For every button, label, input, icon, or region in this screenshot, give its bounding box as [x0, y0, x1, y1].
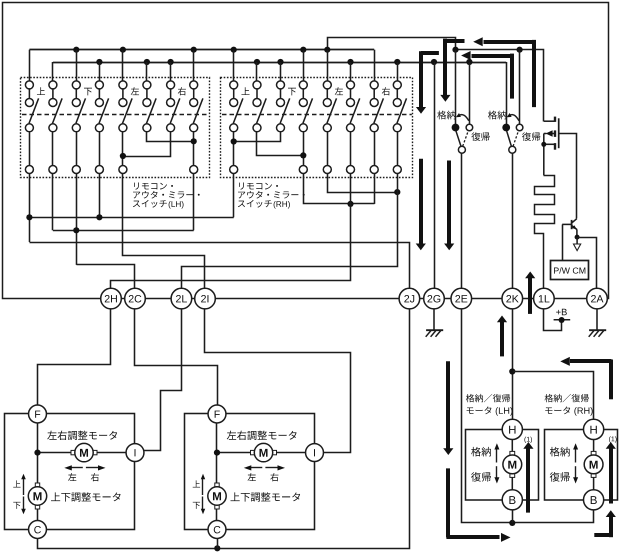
flow arrow: top-left L toward RH box	[421, 51, 439, 55]
wire 2L to I1	[144, 309, 182, 451]
label 復帰 retract-LH	[471, 132, 480, 141]
connector pin 2C	[125, 288, 146, 309]
node RH col8 junction below box	[394, 189, 400, 195]
wire RH col3 crossover to col1	[234, 132, 281, 142]
switch RH-3 contacts and blade	[277, 81, 290, 132]
label 下 RH	[193, 502, 200, 509]
node LH col8 junction	[191, 138, 197, 144]
connector pin 2K	[502, 288, 523, 309]
label switch RH name line1	[239, 183, 244, 190]
switch box LH (dotted)	[21, 78, 210, 178]
terminal I RH	[306, 444, 324, 462]
connector pin 2L	[171, 288, 192, 309]
flow arrow: up toward 2K	[500, 322, 504, 357]
node RH col4 junction	[300, 152, 306, 158]
wire busA end drop to RH col7	[374, 50, 376, 81]
wire risers from switch contacts to buses	[29, 50, 31, 81]
label 下 LH	[13, 502, 20, 509]
direction arrows 上/下 RH	[202, 477, 204, 495]
label 格納 retract-RH	[488, 111, 497, 120]
mirror motor assembly box LH	[5, 414, 135, 530]
module P/W CM	[551, 261, 589, 280]
wire Q2 emitter to 2A	[578, 238, 597, 289]
wire busA (top bus)	[29, 49, 374, 51]
node RH col1 junction	[231, 138, 237, 144]
switch LH-4 contacts and blade	[95, 81, 108, 132]
connector pin 2E	[451, 288, 472, 309]
bottom contacts RH box	[230, 166, 402, 174]
dashed actuation line RH	[222, 114, 412, 116]
wire LH col1 drop	[29, 174, 31, 243]
retract changeover switch LH	[452, 113, 473, 153]
flow arrow: L to return bus	[446, 468, 450, 537]
label 上下調整モータ RH	[231, 492, 240, 501]
resistor R1 (meander)	[535, 176, 555, 289]
switch LH-6 contacts and blade	[143, 81, 156, 132]
wire node to I LH	[38, 452, 127, 454]
label switch RH name line2	[238, 192, 245, 199]
label 格納 inside LH	[471, 447, 481, 457]
wire LH col4 drop	[99, 174, 101, 218]
flow arrow: up through connector row	[528, 278, 532, 314]
transistor Q1 power MOSFET	[544, 117, 559, 176]
flow arrow: right side left arrow	[570, 359, 611, 363]
wires RH box row3-row4 straight	[233, 132, 235, 166]
switch LH-3 contacts and blade	[72, 81, 85, 132]
terminal H LH	[502, 419, 522, 439]
wire RH col2 crossover to col4	[257, 132, 304, 156]
wire RH col7 drop	[374, 174, 376, 204]
connector pin 2G	[424, 288, 445, 309]
label 復帰 retract-RH	[522, 132, 531, 141]
connector pin 2H	[101, 288, 122, 309]
label (1) RH	[609, 436, 611, 442]
label 右 LH	[178, 87, 186, 95]
flow arrow: (1) up inside RH motor box	[609, 448, 613, 504]
switch RH-1 contacts and blade	[230, 81, 243, 132]
open arrow to other circuit (hollow triangle)	[576, 237, 578, 244]
terminal F LH	[29, 405, 47, 423]
label 左 LH	[131, 87, 139, 95]
label switch RH name line3	[238, 201, 245, 208]
motor M retract RH	[584, 451, 603, 477]
label 右 RH	[270, 473, 278, 481]
dashed actuation line LH	[22, 114, 209, 116]
direction arrows 左/右 LH	[69, 467, 83, 469]
transistor Q2 (PNP)	[562, 219, 577, 237]
wire M2 to C RH	[216, 509, 218, 521]
connector pin 2I	[195, 288, 216, 309]
label switch LH name line1	[134, 183, 139, 190]
wire link to MOSFET drain	[520, 50, 544, 122]
terminal F RH	[208, 405, 226, 423]
wire LH col3 drop	[76, 174, 78, 265]
wire drop to retract-LH kakunou contact	[455, 50, 457, 125]
wire 1L to +B feed	[544, 309, 562, 331]
label 右 RH	[382, 87, 390, 95]
terminal H RH	[584, 419, 604, 439]
wire retract-RH common to 2K	[512, 153, 514, 288]
label 上 RH	[193, 480, 200, 487]
node junctions on retract feed line	[452, 47, 458, 53]
wire 2H to F1	[38, 309, 111, 406]
label 左右調整モータ LH	[47, 431, 56, 440]
label 下 LH	[84, 88, 92, 96]
terminal C RH	[208, 521, 226, 539]
wire node to I RH	[217, 452, 306, 454]
wire busB drop to retract-LH fukki contact	[469, 62, 471, 125]
wire F to node LH	[37, 423, 39, 488]
label 復帰 inside RH	[550, 472, 560, 482]
wire retract feed to RH motor H	[513, 372, 594, 421]
terminal B LH	[502, 490, 522, 510]
switch LH-7 contacts and blade	[167, 81, 180, 132]
flow arrow: lower long left arrow	[472, 54, 513, 58]
power +B terminal	[554, 309, 571, 323]
wire C2 drop to return bus	[217, 538, 219, 548]
terminal B RH	[584, 490, 604, 510]
label 格納 retract-LH	[437, 111, 446, 120]
wire busB (second bus)	[53, 62, 506, 64]
wire F to node RH	[216, 423, 218, 488]
label 格納／復帰 RH	[545, 394, 554, 402]
wire RH col8 feed to 2L	[182, 174, 398, 289]
wire LH col7 crossover to col5	[123, 132, 171, 157]
direction arrows 格納/復帰 LH	[496, 447, 498, 463]
motor M vertical (up-down adjust) RH	[208, 483, 226, 509]
ground symbol at 2G	[426, 309, 444, 337]
wire H-M-B chain LH	[511, 438, 513, 453]
switch RH-8 contacts and blade	[393, 81, 406, 132]
node retract return at LH B	[509, 520, 515, 526]
label 左 RH	[248, 473, 256, 481]
flow arrow: second L	[445, 39, 464, 43]
terminal I LH	[126, 444, 144, 462]
switch box RH (dotted)	[221, 78, 413, 178]
retract motor box LH	[466, 430, 539, 501]
switch RH-7 contacts and blade	[370, 81, 383, 132]
wire RH col4 link to col6/col7	[304, 174, 375, 204]
wire retract-switch top link	[456, 49, 520, 51]
wire RH col6 feed to 2H	[111, 174, 351, 289]
label (1) LH	[524, 437, 526, 443]
wire LH col8 drop	[193, 174, 195, 231]
label 復帰 inside LH	[471, 472, 481, 482]
label 格納 inside RH	[550, 447, 560, 457]
flow arrow: (1) up inside LH motor box	[526, 448, 530, 513]
wire RH col1 drop	[233, 174, 235, 218]
switch RH-6 contacts and blade	[347, 81, 360, 132]
wire drop to retract-RH fukki contact	[519, 50, 521, 125]
node net-A at col1	[26, 214, 32, 220]
label 上 LH	[13, 480, 20, 487]
motor M horizontal (left-right adjust) RH	[251, 443, 277, 461]
wire H-M-B chain RH	[593, 438, 595, 453]
label 格納／復帰 LH	[466, 394, 475, 402]
switch RH-4 contacts and blade	[299, 81, 312, 132]
flow arrow segment below (left)	[419, 159, 423, 244]
wire MOSFET gate to transistor Q2	[560, 134, 577, 219]
ground symbol at 2A	[589, 309, 607, 337]
mirror motor assembly box RH	[185, 414, 315, 530]
wire LH col5 feed to 2I	[123, 174, 205, 289]
switch LH-5 contacts and blade	[119, 81, 132, 132]
node retract feed	[509, 368, 515, 374]
label 上下調整モータ LH	[51, 492, 60, 501]
label 上 RH	[241, 87, 249, 95]
node junctions on busB	[96, 59, 102, 65]
retract motor box RH	[545, 430, 618, 501]
flow arrow: down left of motors	[446, 361, 450, 448]
wire busB drop to 2G	[434, 62, 436, 288]
bottom contacts LH box	[25, 166, 197, 174]
wire 2K down to retract node	[512, 309, 514, 421]
node net-A at col4	[96, 214, 102, 220]
wire busC (upper jog of retract feed)	[328, 38, 456, 50]
switch LH-2 contacts and blade	[49, 81, 62, 132]
flow arrow segment below (right)	[447, 161, 451, 244]
retract changeover switch RH	[502, 113, 523, 153]
wires LH box row3-row4 straight	[29, 132, 31, 166]
wire Q2 base to P/W CM	[562, 224, 564, 260]
node junctions on busA	[73, 47, 79, 53]
flow arrow: upper long left arrow	[484, 40, 534, 44]
wire net-A feed to 2J	[30, 243, 410, 289]
node Q2 emitter junction	[575, 235, 580, 240]
direction arrows 左/右 RH	[248, 467, 262, 469]
direction arrows 上/下 LH	[23, 477, 25, 495]
label 下 RH	[288, 88, 296, 96]
wire net-B feed to 2C	[77, 265, 135, 289]
wire M2 to C LH	[37, 509, 39, 521]
node RH col6 junction	[347, 201, 353, 207]
node motor tie LH	[34, 450, 40, 456]
label 左 LH	[68, 473, 76, 481]
wire 2I to I2	[205, 309, 351, 453]
wire 2E down to retract return bus	[462, 309, 594, 523]
node MOSFET source/body tie	[541, 142, 546, 147]
terminal C LH	[29, 521, 47, 539]
wire LH B to return bus	[512, 510, 514, 523]
node bottom return at C2	[214, 545, 220, 551]
label switch LH name line2	[133, 192, 140, 199]
connector pin 2J	[399, 288, 420, 309]
wire LH col2 drop	[52, 174, 54, 231]
wire 2J to bottom return bus	[38, 309, 410, 549]
connector pin 1L	[534, 288, 555, 309]
wire net-A horizontal (cols LH1 LH4 RH1)	[29, 217, 233, 219]
label 上 LH	[37, 87, 45, 95]
switch LH-1 contacts and blade	[25, 81, 38, 132]
switch RH-2 contacts and blade	[253, 81, 266, 132]
motor M retract LH	[503, 451, 522, 477]
label 左右調整モータ RH	[227, 431, 236, 440]
label モータ (RH) RH	[545, 407, 552, 414]
connector pin 2A	[587, 288, 608, 309]
wire LH col6 crossover to col8	[147, 132, 194, 142]
motor M vertical (up-down adjust) LH	[28, 483, 46, 509]
node net-B at col3	[73, 227, 79, 233]
label 右 LH	[91, 473, 99, 481]
wire busB drop to retract-RH kakunou contact	[506, 62, 508, 124]
wire net-B horizontal (cols LH2 LH3 LH8)	[53, 230, 194, 232]
wire retract-LH common to 2E	[461, 153, 463, 288]
direction arrows 格納/復帰 RH	[575, 447, 577, 463]
node LH col5 junction	[120, 153, 126, 159]
label switch LH name line3	[133, 201, 140, 208]
wire 2C to F2	[135, 309, 218, 406]
wire RH col5 link to col8	[328, 174, 398, 193]
motor M horizontal (left-right adjust) LH	[71, 443, 97, 461]
switch LH-8 contacts and blade	[190, 81, 203, 132]
label 左 RH	[335, 87, 343, 95]
switch RH-5 contacts and blade	[323, 81, 336, 132]
node motor tie RH	[214, 450, 220, 456]
label モータ (LH) LH	[467, 407, 474, 414]
flow arrow: bottom right corner up	[594, 533, 609, 537]
outer border of switch/control unit	[3, 3, 609, 299]
